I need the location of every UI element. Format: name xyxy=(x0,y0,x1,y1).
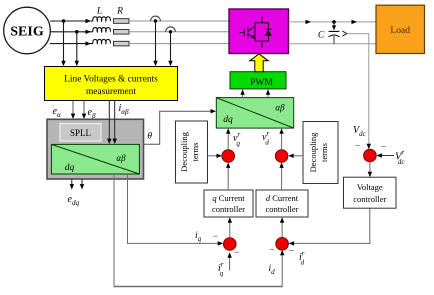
svg-text:−: − xyxy=(355,141,360,151)
summing junction Vdc xyxy=(364,149,377,162)
wire transform to PWM left xyxy=(242,92,244,98)
wire DC positive xyxy=(289,21,377,23)
svg-text:αβ: αβ xyxy=(275,103,285,113)
wire phase B to converter xyxy=(129,31,229,33)
wire d controller to v_d junction xyxy=(281,165,283,190)
transform block alphabeta-dq xyxy=(51,144,139,174)
svg-text:Line Voltages & currents: Line Voltages & currents xyxy=(64,75,158,85)
inductor L phase A xyxy=(93,17,111,21)
summing junction v_d xyxy=(275,150,288,163)
svg-text:R: R xyxy=(116,7,123,17)
svg-text:d Current: d Current xyxy=(266,193,299,203)
svg-text:−: − xyxy=(381,142,386,152)
wire Vdc sense xyxy=(347,34,369,147)
wire i_d from transform xyxy=(113,174,115,287)
svg-text:ird: ird xyxy=(299,250,305,267)
svg-text:−: − xyxy=(213,231,218,241)
summing junction q current xyxy=(224,238,237,251)
capacitor C xyxy=(318,24,340,44)
summing junction d current xyxy=(276,238,289,251)
wire v_q ref up xyxy=(227,131,229,150)
wire e_alpha down xyxy=(72,101,74,116)
decoupling terms left xyxy=(176,121,208,183)
decoupling terms right xyxy=(303,122,338,184)
summing junction v_q xyxy=(222,150,235,163)
wire decoupling left to q junction xyxy=(208,155,220,157)
svg-text:controller: controller xyxy=(212,204,245,214)
wire e_dq arrows xyxy=(71,179,73,186)
wire DC negative xyxy=(289,43,377,45)
wire v_d ref up xyxy=(281,131,283,150)
svg-text:θ: θ xyxy=(147,132,152,142)
resistor R phase C xyxy=(114,41,130,46)
diode D1 xyxy=(265,29,272,36)
svg-text:SEIG: SEIG xyxy=(10,25,44,40)
measurement block xyxy=(45,67,178,101)
SPLL box xyxy=(60,124,101,142)
svg-text:SPLL: SPLL xyxy=(70,128,91,138)
svg-text:−: − xyxy=(269,245,274,255)
wire q controller to v_q junction xyxy=(227,165,229,190)
svg-text:Voltage: Voltage xyxy=(357,182,383,192)
svg-text:dq: dq xyxy=(223,115,233,125)
wire transform to PWM right xyxy=(267,92,269,98)
wire CT1 down xyxy=(155,21,157,63)
wire phase B xyxy=(50,31,93,33)
wire decoupling right to d junction xyxy=(291,155,303,157)
node DC link xyxy=(332,20,336,24)
wire phase A to converter xyxy=(129,20,229,22)
q current controller xyxy=(204,190,253,217)
wire phase C xyxy=(50,43,93,45)
SPLL transform block (gray container) xyxy=(47,119,144,179)
wire Vdc ref xyxy=(379,155,394,157)
wire tap A down xyxy=(63,21,65,63)
svg-text:−: − xyxy=(289,246,294,256)
svg-text:L: L xyxy=(96,7,102,17)
current sensor CT1 xyxy=(151,16,161,21)
wire Vdc junction to voltage controller xyxy=(369,162,371,175)
svg-text:Decoupling: Decoupling xyxy=(179,131,189,171)
PWM block xyxy=(230,72,286,89)
wire tap B down xyxy=(76,32,78,63)
current sensor CT2 xyxy=(166,27,176,32)
wire e_beta down xyxy=(83,101,85,116)
Vdc sense chevron xyxy=(342,31,347,36)
node phase A tap xyxy=(62,19,66,23)
generator SEIG xyxy=(4,7,51,54)
wire q sum to q controller xyxy=(229,220,231,238)
svg-text:αβ: αβ xyxy=(116,153,126,163)
inductor L phase C xyxy=(93,39,111,43)
svg-text:terms: terms xyxy=(190,143,200,162)
inductor L phase B xyxy=(93,28,111,32)
arrow phase A xyxy=(86,19,92,23)
wire theta xyxy=(144,111,213,144)
transform block dq-alphabeta xyxy=(216,98,293,129)
svg-text:controller: controller xyxy=(353,194,386,204)
resistor R phase B xyxy=(114,30,130,35)
wire i_d ref from voltage controller xyxy=(292,208,370,243)
svg-text:PWM: PWM xyxy=(250,78,273,88)
arrow phase C xyxy=(86,41,92,45)
load block xyxy=(376,5,425,53)
svg-text:Load: Load xyxy=(390,26,410,36)
gate pulse arrow PWM to converter xyxy=(250,54,268,72)
wire phase A xyxy=(50,20,93,22)
svg-text:controller: controller xyxy=(265,204,298,214)
arrow phase B xyxy=(86,30,92,34)
svg-text:dq: dq xyxy=(65,163,75,173)
wire i_q ref stub xyxy=(229,255,231,271)
node phase B tap xyxy=(75,30,79,34)
wire i_q from transform xyxy=(128,174,220,243)
resistor R phase A xyxy=(114,19,130,24)
converter block xyxy=(229,9,289,54)
voltage controller xyxy=(344,177,397,208)
wire d sum to d controller xyxy=(281,220,283,238)
svg-text:Decoupling: Decoupling xyxy=(308,132,318,172)
svg-text:irq: irq xyxy=(218,261,224,278)
svg-text:terms: terms xyxy=(319,143,329,162)
svg-text:C: C xyxy=(318,31,325,41)
svg-text:measurement: measurement xyxy=(86,87,136,97)
wire CT2 down xyxy=(170,32,172,63)
IGBT U1 xyxy=(240,17,269,48)
d current controller xyxy=(256,190,308,217)
wire phase C to converter xyxy=(129,43,229,45)
svg-text:q Current: q Current xyxy=(212,193,245,203)
wire i_alphabeta double line xyxy=(108,101,110,141)
